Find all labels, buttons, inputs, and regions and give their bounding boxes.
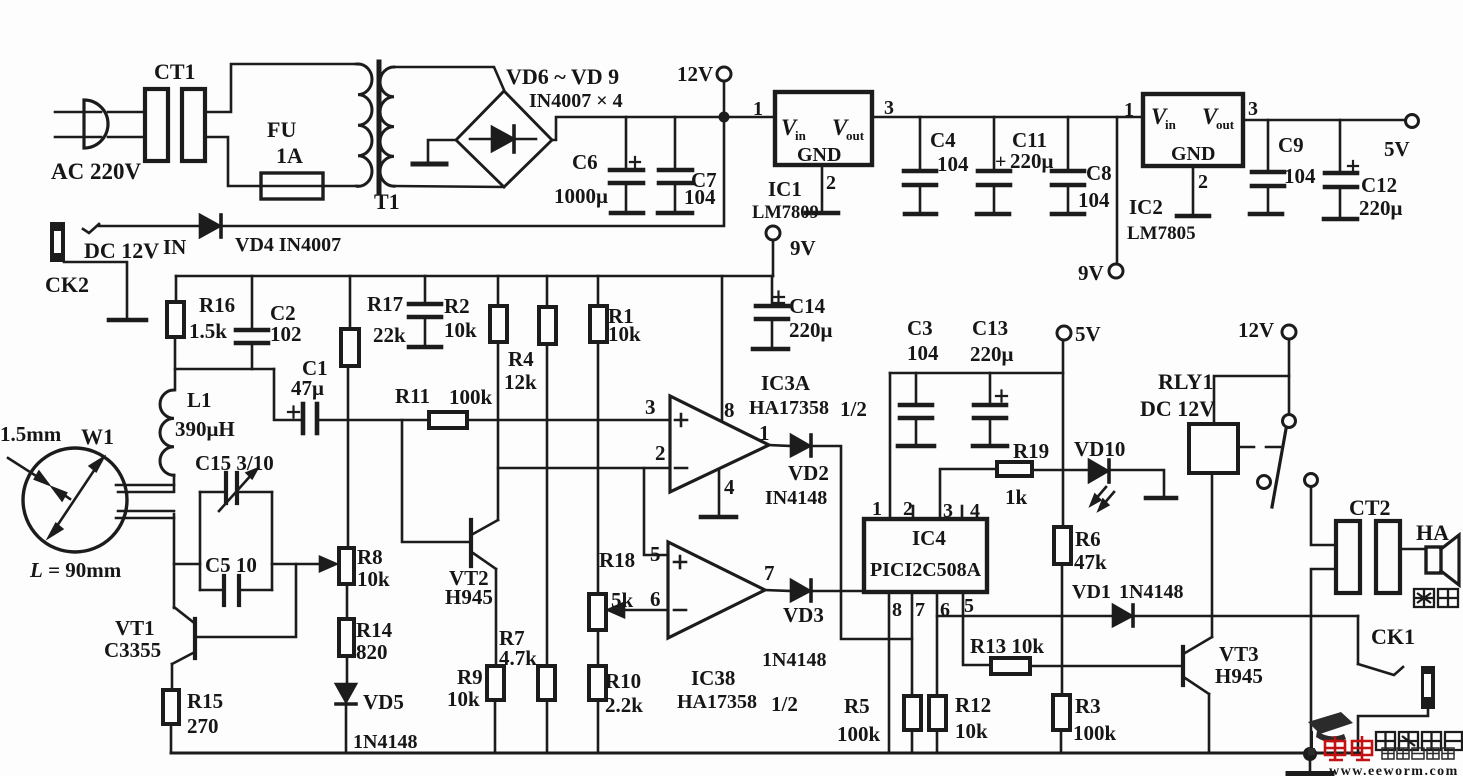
svg-text:2.2k: 2.2k: [605, 693, 643, 717]
terminal 9V left: [766, 226, 780, 240]
svg-text:IC1: IC1: [768, 177, 802, 201]
svg-text:270: 270: [187, 714, 219, 738]
svg-text:2: 2: [1198, 171, 1208, 193]
regulator IC2 LM7805 box: [1143, 94, 1243, 166]
label kuozhanjiekou char3: [1422, 732, 1441, 750]
svg-text:IC2: IC2: [1129, 195, 1163, 219]
resistor R14 820: [339, 619, 354, 656]
connector CT1 block 2: [182, 89, 205, 161]
svg-text:CK2: CK2: [45, 272, 89, 297]
capacitor C14 220u: [771, 276, 774, 304]
AC plug P1: [84, 100, 108, 148]
switch hook of CK2: [83, 224, 99, 233]
connector CT1 block 1: [145, 89, 168, 161]
wire VD10 to ground: [1110, 470, 1164, 496]
svg-text:22k: 22k: [373, 323, 406, 347]
svg-text:1k: 1k: [1005, 485, 1028, 509]
label kuozhanjiekou char2: [1399, 732, 1418, 750]
resistor R7 upper box: [546, 276, 549, 307]
resistor R6 47k: [1054, 527, 1071, 564]
wire secondary bottom to bridge: [394, 186, 504, 187]
svg-text:HA: HA: [1416, 520, 1449, 545]
wire 9V terminal to rail: [772, 240, 775, 276]
svg-text:R3: R3: [1075, 694, 1101, 718]
svg-text:104: 104: [907, 341, 939, 365]
svg-text:IN4007 × 4: IN4007 × 4: [529, 90, 623, 112]
svg-text:VT1: VT1: [115, 616, 155, 640]
capacitor C7 104: [674, 117, 677, 168]
wire IC38 output: [765, 590, 791, 591]
VT3 collector: [1185, 637, 1212, 653]
svg-text:IC3A: IC3A: [761, 371, 811, 395]
svg-text:VD2: VD2: [788, 461, 829, 485]
svg-text:out: out: [1216, 117, 1235, 132]
svg-text:C9: C9: [1278, 133, 1304, 157]
label dianzi char3: [1412, 748, 1424, 759]
svg-text:VD5: VD5: [363, 690, 404, 714]
svg-text:4: 4: [970, 500, 980, 522]
svg-text:C14: C14: [789, 294, 826, 318]
svg-text:R4: R4: [508, 347, 534, 371]
wire C1 to R11: [319, 419, 429, 422]
svg-text:IN4148: IN4148: [765, 487, 827, 509]
svg-text:DC 12V: DC 12V: [1140, 396, 1215, 421]
connector CT2 block 1: [1336, 521, 1360, 593]
label jinggao char1: [1414, 589, 1434, 607]
svg-text:5: 5: [964, 595, 974, 617]
svg-text:H945: H945: [445, 585, 493, 609]
svg-text:L = 90mm: L = 90mm: [29, 558, 122, 582]
regulator IC1 LM7809 box: [775, 92, 872, 165]
transistor VT1 C3355 base bar: [193, 619, 197, 658]
svg-text:T1: T1: [374, 189, 400, 214]
wire IC1 GND pin2: [821, 165, 824, 211]
wire pin6 to VD1 line: [937, 615, 1113, 618]
svg-text:C4: C4: [930, 128, 956, 152]
wire switch to CT2: [1311, 487, 1336, 545]
wire relay coil to VT3 collector: [1211, 473, 1214, 637]
svg-text:2: 2: [826, 172, 836, 194]
svg-text:C3: C3: [907, 316, 933, 340]
wire CK2 to VD4: [99, 225, 200, 228]
bottom ground rail: [171, 752, 1360, 755]
switch contact right: [1305, 474, 1318, 487]
svg-text:1N4148: 1N4148: [353, 731, 417, 753]
svg-text:+: +: [995, 151, 1006, 173]
chip IC4 PICI2C508A box: [864, 519, 987, 592]
svg-text:1000μ: 1000μ: [554, 184, 608, 208]
capacitor R2 10k: [424, 276, 427, 302]
svg-text:47k: 47k: [1074, 550, 1107, 574]
wire CT1 to fuse loop top: [205, 64, 356, 112]
wire CK1 drop: [1357, 616, 1360, 664]
terminal 12V right: [1282, 325, 1296, 339]
label kuozhanjiekou char1: [1376, 732, 1395, 750]
arrow into R8: [320, 557, 336, 571]
svg-text:H945: H945: [1215, 664, 1263, 688]
tank box C15/C5 left side: [199, 492, 202, 590]
svg-text:100k: 100k: [1073, 721, 1117, 745]
LED VD10: [1089, 460, 1108, 482]
svg-text:R8: R8: [357, 545, 383, 569]
wire main 9V rail: [176, 275, 773, 278]
IC4 pin1 wire: [889, 373, 892, 519]
VT3 emitter: [1185, 678, 1209, 694]
resistor R16 1.5k: [175, 276, 178, 302]
VT2 collector: [473, 520, 498, 534]
svg-text:5V: 5V: [1075, 322, 1101, 346]
sensor W1 loop: [23, 448, 127, 552]
capacitor C1 47u: [301, 404, 306, 433]
fuse FU 1A: [261, 173, 323, 199]
capacitor C11 220u: [993, 117, 996, 169]
wire 12V to relay: [1214, 339, 1289, 424]
svg-text:VD4 IN4007: VD4 IN4007: [235, 234, 341, 256]
wire VT2 base branch: [402, 420, 468, 542]
wire IC2 GND pin2: [1192, 166, 1195, 214]
speaker HA: [1426, 547, 1441, 573]
wire R19 to VD10: [1032, 469, 1089, 472]
jack CK1 plug: [1421, 666, 1435, 709]
svg-text:9V: 9V: [790, 236, 816, 260]
label dianzi char5: [1442, 748, 1454, 759]
svg-text:390μH: 390μH: [175, 417, 235, 441]
svg-text:R5: R5: [844, 694, 870, 718]
svg-text:6: 6: [940, 599, 950, 621]
neck top of W1: [116, 484, 174, 487]
svg-text:3: 3: [884, 97, 894, 119]
wire CT2 left to ground rail: [1311, 569, 1336, 753]
svg-text:10k: 10k: [357, 567, 390, 591]
wire C3/C13 top rail: [890, 372, 1063, 375]
svg-text:1/2: 1/2: [771, 692, 798, 716]
capacitor C13 220u: [989, 373, 992, 403]
hook CK1: [1358, 664, 1403, 675]
svg-text:R2: R2: [444, 294, 470, 318]
node wire R16/C2: [175, 368, 274, 371]
bridge inner diode: [470, 138, 536, 141]
svg-text:VD6 ~ VD 9: VD6 ~ VD 9: [506, 64, 619, 89]
inductor L1 390uH: [160, 390, 174, 475]
tank box bottom edge: [200, 589, 222, 592]
wire VD2 to IC4 pin7: [812, 446, 912, 639]
ground bar CK2: [109, 318, 146, 323]
svg-text:C6: C6: [572, 150, 598, 174]
variable capacitor C15 3/10: [224, 473, 228, 503]
svg-text:1: 1: [872, 498, 882, 520]
IC4 pin tick a: [912, 506, 915, 519]
svg-text:7: 7: [764, 561, 775, 585]
svg-text:47μ: 47μ: [291, 376, 324, 400]
wire plug prong top: [55, 111, 101, 114]
transistor VT2 H945 base bar: [469, 520, 473, 566]
terminal 5V right: [1406, 115, 1419, 128]
VT2 emitter: [473, 553, 496, 569]
svg-text:LM7805: LM7805: [1127, 223, 1196, 244]
svg-text:1.5mm: 1.5mm: [0, 422, 62, 446]
VT1 base wire: [197, 564, 296, 637]
neck bottom of W1: [118, 510, 174, 513]
wire plug prong bottom: [55, 136, 101, 139]
wire fuse to transformer: [323, 185, 356, 188]
VT1 emitter: [172, 653, 193, 664]
svg-text:out: out: [846, 128, 865, 143]
wire VD1 to CK1: [1134, 615, 1358, 618]
wire R13 to VT3 base: [1030, 665, 1181, 668]
wire plug to CT1: [108, 111, 144, 114]
resistor R9 10k: [487, 666, 504, 700]
ground bar IC1: [806, 211, 838, 216]
switch contact left: [1258, 476, 1271, 489]
wire bridge left vertex stub: [428, 140, 456, 162]
diameter arrow in W1: [53, 463, 99, 532]
svg-text:104: 104: [684, 185, 716, 209]
svg-text:R15: R15: [187, 689, 223, 713]
svg-text:4: 4: [724, 475, 735, 499]
svg-text:4.7k: 4.7k: [499, 646, 537, 670]
IC4 pin8 wire: [888, 592, 891, 753]
svg-text:LM7809: LM7809: [752, 203, 819, 223]
op-amp IC38 triangle: [668, 542, 765, 638]
svg-text:R14: R14: [356, 618, 393, 642]
svg-text:in: in: [1165, 117, 1177, 132]
capacitor C3 104: [915, 373, 918, 403]
node dot 12V rail: [719, 112, 730, 123]
jack CK2 plug: [50, 222, 65, 262]
svg-text:1: 1: [1124, 99, 1134, 121]
svg-text:CK1: CK1: [1371, 624, 1415, 649]
wire op-amp minus line: [498, 467, 670, 470]
label kuozhanjiekou char4: [1445, 732, 1462, 750]
svg-text:RLY1: RLY1: [1158, 369, 1213, 394]
svg-text:3: 3: [943, 500, 953, 522]
tank box right side: [271, 492, 274, 590]
resistor R17 22k: [349, 276, 352, 329]
svg-text:DC 12V: DC 12V: [84, 238, 159, 263]
svg-text:12V: 12V: [1238, 318, 1274, 342]
svg-text:R13 10k: R13 10k: [970, 634, 1044, 658]
IC4 pin5 wire to R13: [963, 592, 991, 665]
wire IC38 minus input to R18 wiper: [622, 609, 668, 612]
potentiometer R18 5k: [589, 594, 606, 630]
svg-text:C13: C13: [972, 316, 1008, 340]
svg-text:C15 3/10: C15 3/10: [195, 451, 274, 475]
node dot ground: [1303, 747, 1317, 761]
IC3A pin8 wire: [721, 276, 724, 421]
wire 12V to switch: [1288, 376, 1291, 414]
svg-text:IN: IN: [163, 235, 186, 259]
resistor R5 100k: [904, 696, 921, 730]
svg-text:104: 104: [937, 152, 969, 176]
svg-text:HA17358: HA17358: [749, 397, 829, 419]
diode VD2 IN4148: [791, 435, 810, 456]
svg-text:12V: 12V: [677, 62, 713, 86]
svg-text:10k: 10k: [608, 322, 641, 346]
svg-text:CT2: CT2: [1349, 495, 1391, 520]
ground bar IC3A pin4: [701, 515, 736, 520]
svg-text:10k: 10k: [447, 687, 480, 711]
svg-text:3: 3: [1248, 98, 1258, 120]
svg-text:GND: GND: [797, 144, 841, 166]
wire VD3 to IC4 left: [812, 590, 864, 593]
tank box top edge: [200, 491, 224, 494]
ground symbol main: [1309, 754, 1312, 771]
resistor R8 10k: [339, 548, 354, 584]
wire R11 to op-amp plus input: [467, 419, 670, 422]
label dianzi char1: [1382, 748, 1394, 759]
svg-text:VD3: VD3: [783, 603, 824, 627]
diode VD1 1N4148: [1113, 605, 1132, 626]
bar at bridge left stub: [413, 162, 446, 167]
transistor VT3 H945 base bar: [1181, 647, 1185, 685]
svg-text:R6: R6: [1075, 527, 1101, 551]
IC4 pin7 wire to R5: [911, 592, 914, 696]
svg-text:1/2: 1/2: [840, 397, 867, 421]
svg-text:1N4148: 1N4148: [1119, 581, 1183, 603]
wire secondary top to bridge: [394, 67, 504, 90]
label chongchong char2: [1352, 736, 1372, 760]
capacitor C6 1000u: [625, 117, 628, 168]
wire CT2 to speaker: [1400, 548, 1426, 551]
svg-text:1N4148: 1N4148: [762, 649, 826, 671]
svg-text:1A: 1A: [276, 143, 303, 168]
IC4 pin3 tick: [961, 506, 964, 519]
IC3A pin4 wire: [718, 469, 721, 515]
resistor R13 10k: [991, 658, 1030, 674]
resistor R3 100k: [1053, 695, 1070, 730]
wire CK2 sleeve to ground: [64, 262, 127, 318]
diode VD4 IN4007: [200, 215, 220, 237]
wire IC2 out rail: [1243, 119, 1405, 122]
label jinggao char2: [1438, 589, 1458, 607]
svg-text:10k: 10k: [444, 318, 477, 342]
terminal 12V top: [717, 67, 731, 81]
capacitor C12 220u: [1339, 120, 1342, 171]
svg-text:100k: 100k: [449, 385, 493, 409]
wire L1 to W1 neck: [173, 475, 176, 490]
svg-text:100k: 100k: [837, 722, 881, 746]
ground bar IC2: [1177, 214, 1209, 219]
svg-text:104: 104: [1284, 164, 1316, 188]
wire minus line branch to IC38 plus: [644, 468, 668, 555]
svg-text:in: in: [795, 128, 807, 143]
terminal 9V right: [1109, 264, 1123, 278]
svg-text:12k: 12k: [504, 370, 537, 394]
label dianzi char4: [1427, 748, 1439, 759]
resistor R12 10k: [929, 696, 946, 730]
svg-text:R16: R16: [199, 293, 235, 317]
svg-text:R17: R17: [367, 292, 403, 316]
svg-text:5k: 5k: [611, 588, 634, 612]
svg-text:1: 1: [753, 98, 763, 120]
IC4 pin6 wire: [936, 592, 939, 696]
wire W1 bottom neck down: [173, 514, 176, 608]
svg-text:1: 1: [759, 421, 770, 445]
wire bridge output to 12V rail: [552, 117, 724, 140]
svg-text:HA17358: HA17358: [677, 691, 757, 713]
wire branch to C15 box: [174, 563, 200, 566]
svg-text:2: 2: [903, 498, 913, 520]
resistor R4 12k: [497, 276, 500, 306]
wire R4 to minus input / VT2 collector: [497, 342, 500, 520]
svg-text:R9: R9: [457, 665, 483, 689]
wire VD4 to 12V node: [221, 120, 724, 226]
svg-text:CT1: CT1: [154, 59, 196, 84]
wire tank box to R8 wiper: [272, 563, 326, 566]
svg-text:R19: R19: [1013, 439, 1049, 463]
svg-text:IC38: IC38: [691, 666, 735, 690]
transformer T1 primary winding: [358, 64, 372, 186]
wire IC4 pin3 to R19: [940, 469, 997, 519]
svg-text:220μ: 220μ: [1359, 196, 1403, 220]
wire IC3A output: [769, 445, 791, 446]
diode VD3 1N4148: [791, 580, 810, 601]
svg-text:3: 3: [645, 395, 656, 419]
resistor R1 10k: [597, 276, 600, 306]
svg-text:C3355: C3355: [104, 638, 161, 662]
svg-text:PICI2C508A: PICI2C508A: [870, 559, 982, 581]
wire 5V down to R6: [1062, 340, 1065, 527]
svg-text:8: 8: [892, 599, 902, 621]
wire node to C1: [274, 369, 301, 420]
watermark cap logo: [1308, 712, 1353, 734]
svg-text:R12: R12: [955, 693, 991, 717]
svg-text:IC4: IC4: [912, 526, 946, 550]
svg-text:VD10: VD10: [1074, 437, 1125, 461]
svg-text:5: 5: [650, 542, 661, 566]
capacitor C4 104: [919, 117, 922, 169]
svg-text:R10: R10: [605, 669, 641, 693]
svg-text:R18: R18: [599, 548, 635, 572]
svg-text:8: 8: [724, 398, 735, 422]
svg-text:104: 104: [1078, 188, 1110, 212]
svg-text:VT3: VT3: [1219, 642, 1259, 666]
wire 9V tap from rail: [1116, 117, 1119, 264]
label dianzi char2: [1397, 748, 1409, 759]
switch contact top: [1283, 415, 1296, 428]
label chongchong char1: [1325, 736, 1345, 760]
connector CT2 block 2: [1376, 521, 1400, 593]
svg-text:7: 7: [915, 599, 925, 621]
svg-text:AC 220V: AC 220V: [51, 159, 141, 184]
capacitor C5 10: [222, 576, 226, 605]
resistor R11 100k: [429, 412, 467, 428]
wire IC1 out rail to IC2: [872, 116, 1143, 119]
svg-text:820: 820: [356, 640, 388, 664]
resistor R10 2.2k: [589, 666, 606, 700]
svg-text:C8: C8: [1086, 161, 1112, 185]
capacitor C9 104: [1267, 120, 1270, 170]
diode VD5 1N4148: [336, 684, 356, 702]
svg-text:10k: 10k: [955, 719, 988, 743]
resistor R19 1k: [997, 462, 1032, 476]
terminal 5V mid: [1057, 326, 1071, 340]
wire CT1 to fuse loop bottom: [205, 137, 261, 186]
capacitor C2 102: [251, 276, 254, 328]
resistor R15 270: [163, 690, 179, 724]
svg-text:C12: C12: [1361, 173, 1397, 197]
transformer T1 core: [377, 62, 382, 192]
svg-text:FU: FU: [267, 117, 296, 142]
svg-text:102: 102: [270, 322, 302, 346]
svg-text:220μ: 220μ: [970, 342, 1014, 366]
svg-text:W1: W1: [81, 424, 114, 449]
ground bar VD10: [1146, 496, 1176, 501]
svg-text:R11: R11: [395, 384, 430, 408]
resistor R7 4.7k lower box: [538, 666, 555, 700]
svg-text:5V: 5V: [1384, 137, 1410, 161]
svg-text:1.5k: 1.5k: [189, 319, 227, 343]
